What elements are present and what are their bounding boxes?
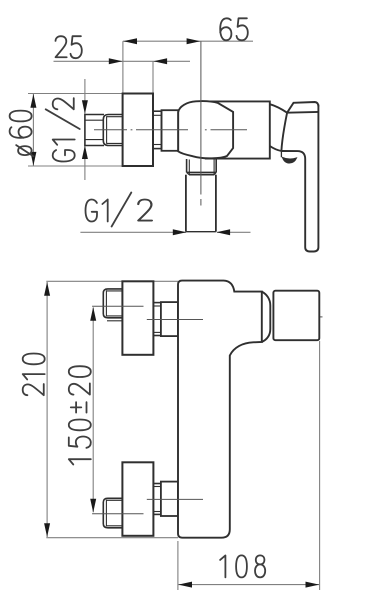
wall plate bottom front	[122, 462, 153, 536]
small connector A	[153, 111, 162, 148]
wire: dim 65 line	[54, 41, 254, 93]
handle base left edge	[281, 113, 287, 151]
arrowheads dim ø60	[30, 94, 36, 166]
collar nut under body	[187, 159, 217, 175]
centerlines front view	[92, 306, 203, 514]
step piece top	[153, 303, 161, 336]
handle lever	[281, 105, 318, 252]
label 108	[220, 555, 265, 577]
nut top inlet	[103, 289, 122, 321]
shower pipe	[186, 175, 216, 232]
eccentric union top	[161, 302, 178, 336]
step piece bottom	[153, 484, 161, 515]
eccentric union bottom	[161, 482, 178, 516]
centerline horizontal side view	[94, 129, 247, 131]
wire: dim G1/2 vertical lines	[84, 79, 86, 180]
arrowheads dim 65	[123, 38, 200, 44]
spout end cap	[273, 291, 319, 341]
spout centerline tick	[319, 316, 322, 318]
label ø60 (rotated)	[10, 111, 34, 157]
cartridge housing	[205, 101, 270, 158]
body front view	[178, 281, 262, 538]
arrowheads dim G1/2	[82, 100, 88, 159]
label G1/2 (rotated)	[46, 98, 80, 161]
label 150±20 (rotated)	[69, 366, 91, 464]
dim 108 lines	[178, 341, 320, 590]
centerline vertical side view	[200, 41, 202, 205]
arrowheads dim 25	[109, 58, 167, 64]
wire: dim ø60 lines	[28, 94, 122, 167]
arrowheads dim 150±20	[90, 307, 96, 513]
dim 150±20 line	[92, 308, 94, 513]
spout neck bulge	[262, 292, 271, 342]
neck taper to handle	[270, 104, 287, 151]
leader G1/2 lower	[80, 231, 250, 233]
handle cap	[287, 102, 318, 113]
arrowheads dim 108	[178, 582, 319, 588]
inlet connector B	[162, 110, 179, 151]
body blob	[178, 101, 233, 158]
nut side view	[103, 115, 122, 146]
arrowheads dim 210	[44, 282, 50, 537]
wall plate top front	[122, 281, 153, 355]
label 65	[220, 18, 248, 40]
arrowheads leader G1/2	[173, 229, 230, 235]
dim 210 lines	[46, 281, 178, 537]
thread G1/2 wall side	[85, 115, 104, 146]
nut bottom inlet	[103, 498, 122, 528]
label G1/2 leader	[86, 193, 152, 227]
handle underside cup	[282, 157, 296, 163]
label 210 (rotated)	[23, 354, 45, 396]
label 25	[56, 36, 82, 58]
wall plate side view	[123, 94, 153, 167]
